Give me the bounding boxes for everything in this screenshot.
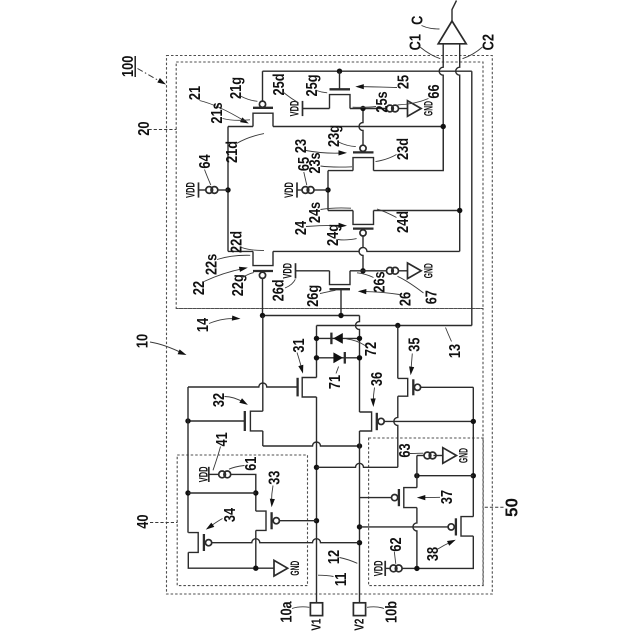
transistor 37 channel plate and arms <box>404 488 417 508</box>
transistor 38 channel plate and arms <box>461 517 473 537</box>
transistor 23 channel plate and arms <box>353 158 374 171</box>
wire 35 source down to wire 11 (hops over 36g and wire 12) <box>394 396 398 467</box>
svg-text:14: 14 <box>195 318 213 332</box>
svg-text:34: 34 <box>222 508 240 522</box>
wire 24 source lead <box>328 210 353 212</box>
box 40 dashed outline <box>177 455 307 586</box>
wire rail to 33 drain rung <box>188 492 256 494</box>
transistor 21 gate bar <box>253 107 273 109</box>
wire 25 gate from wire 13 <box>339 71 341 89</box>
svg-text:21: 21 <box>187 86 205 100</box>
wire 37 source down (hop over 38g) <box>413 508 417 569</box>
wire 24 drain lead to C2 bus <box>374 210 460 212</box>
wire 33 source down to GND rail <box>255 530 257 568</box>
node A vertical (wire 13 to diodes and 31 drain) <box>316 326 318 378</box>
junction dot 22g on wire 14 <box>260 313 265 318</box>
wire C1 lead <box>439 44 443 171</box>
transistor 38 gate bubble <box>448 524 454 530</box>
transistor 25 channel plate and arms <box>330 95 351 109</box>
svg-text:36: 36 <box>369 372 387 386</box>
transistor 31 gate bar <box>296 378 298 397</box>
svg-text:67: 67 <box>423 290 441 304</box>
transistor 22 gate bubble <box>259 272 265 278</box>
svg-text:VDD: VDD <box>282 263 295 279</box>
svg-text:32: 32 <box>211 393 229 407</box>
wire 22 source lead <box>228 250 253 252</box>
transistor 33 channel plate and arms <box>256 511 266 530</box>
wire 36 gate to right bus <box>384 420 473 422</box>
wire 35 gate to right bus <box>421 386 474 388</box>
svg-text:24g: 24g <box>325 224 343 246</box>
svg-text:GND: GND <box>289 561 303 576</box>
wire 22 drain lead to C2 node (hop over 24g) <box>273 247 460 251</box>
svg-text:25: 25 <box>395 75 413 89</box>
junction dot 38g on wire 12 <box>357 524 362 529</box>
current source 41/61 symbol <box>219 471 226 478</box>
terminal 10b box V2 <box>353 603 365 616</box>
transistor 37 gate bar <box>398 489 400 506</box>
transistor 24 gate bar <box>353 227 374 229</box>
junction dot current source 65 <box>325 187 330 192</box>
ground symbol 67 <box>408 263 422 279</box>
wire 23 drain lead to C1 bus <box>374 127 444 171</box>
svg-text:25s: 25s <box>374 91 392 112</box>
transistor 38 gate bar <box>455 518 457 535</box>
ground symbol box 40 <box>274 560 288 576</box>
diode 72 (points left) <box>333 333 343 344</box>
wire 14 horizontal (22g to 26g to node B) <box>263 315 360 317</box>
svg-text:21s: 21s <box>209 102 227 123</box>
svg-text:21d: 21d <box>224 141 242 163</box>
svg-text:25d: 25d <box>271 73 289 95</box>
transistor 21 gate wire from wire 13 <box>262 71 264 101</box>
current source 64 symbol <box>198 182 200 197</box>
wire 26 gate down to node 14 <box>340 289 342 315</box>
svg-text:12: 12 <box>326 550 344 564</box>
junction dot 25g on wire 13 <box>337 69 342 74</box>
wire 36 source stub <box>359 431 361 446</box>
wire rail 31g/32g/33d/34d <box>187 387 189 533</box>
svg-text:31: 31 <box>291 338 309 352</box>
wire 12 from V2 up to 32s/36s junction <box>359 446 361 603</box>
svg-text:41: 41 <box>214 432 232 446</box>
svg-text:C2: C2 <box>480 34 498 50</box>
svg-text:61: 61 <box>243 457 261 471</box>
svg-text:35: 35 <box>406 337 424 351</box>
svg-text:40: 40 <box>135 514 153 528</box>
transistor 22 gate bar <box>253 270 273 272</box>
transistor 33 gate bubble <box>273 518 279 524</box>
wire diode top rung <box>317 337 360 339</box>
svg-text:10a: 10a <box>278 600 296 622</box>
box 50 dashed outline <box>369 438 484 586</box>
wire 63 down to 37 drain <box>416 456 418 488</box>
wire 23 source lead <box>328 170 353 172</box>
svg-text:22g: 22g <box>230 274 248 296</box>
svg-text:63: 63 <box>397 443 415 457</box>
transistor 32 channel plate and arms <box>250 411 262 431</box>
junction dot 26g on wire 14 <box>338 313 343 318</box>
transistor 34 channel plate and arms <box>188 533 198 553</box>
svg-text:24s: 24s <box>307 202 325 223</box>
transistor 23 gate bar <box>353 151 374 153</box>
VDD symbol at 26 drain <box>295 263 297 278</box>
wire 22 gate down to node 14 <box>262 278 264 315</box>
wire middle rail 23s/24s <box>327 171 329 211</box>
svg-text:37: 37 <box>439 490 457 504</box>
svg-text:C: C <box>409 15 427 25</box>
junction dot 25s node <box>360 106 365 111</box>
diode 71 (points right) <box>333 352 343 363</box>
transistor 35 gate bubble <box>414 384 420 390</box>
crystal apex lead <box>452 1 457 22</box>
ground symbol 66 <box>408 101 422 117</box>
wire 24 gate down to 26s node (hop over 22d) <box>359 236 363 271</box>
box 20 (oscillation circuit) dashed outline <box>176 62 483 309</box>
wire 33 gate to wire 11 <box>279 520 316 522</box>
terminal 10a box V1 <box>310 603 322 616</box>
junction dot 33 drain node <box>253 490 258 495</box>
box 10 (IC) dashed outline: top/right/bottom <box>176 309 483 586</box>
svg-text:65: 65 <box>296 157 314 171</box>
wire rung 63/37d to right bus <box>417 475 473 477</box>
svg-text:23g: 23g <box>326 125 344 147</box>
wire 21 source lead <box>228 126 253 128</box>
transistor 23 gate bubble <box>360 145 366 151</box>
junction dot 35s on wire 11 <box>314 465 319 470</box>
transistor 22 channel plate and arms <box>253 251 273 265</box>
wire 13 right bus segment <box>471 71 473 325</box>
wire 38 gate from wire 12 <box>360 526 449 528</box>
transistor 34 gate bar <box>203 534 205 551</box>
svg-text:72: 72 <box>363 342 381 356</box>
wire 35 drain up to wire 13 <box>397 326 399 379</box>
junction dot 32s/36s on wire 12 <box>357 443 362 448</box>
svg-text:13: 13 <box>447 344 465 358</box>
wire diode bottom rung <box>317 357 360 359</box>
transistor 33 gate bar <box>270 512 272 529</box>
VDD symbol 62 <box>384 561 386 576</box>
wire 11 from V1 up to 31 source <box>316 397 318 603</box>
svg-text:50: 50 <box>501 498 522 517</box>
svg-text:10: 10 <box>134 334 152 348</box>
junction dot rail at 493 <box>185 490 190 495</box>
transistor 36 gate bubble <box>378 418 384 424</box>
svg-text:22s: 22s <box>203 254 221 275</box>
wire 34 gate to wire 12 (hops over 33s and wire 11) <box>212 539 360 543</box>
junction dot 63/37d <box>414 473 419 478</box>
transistor 21 channel plate and arms <box>253 113 273 126</box>
node B vertical (wire 14 to diodes and 36 drain, hop over wire 13) <box>356 316 360 413</box>
wire 34 source to GND rail <box>188 552 274 568</box>
transistor 35 channel plate and arms <box>398 378 408 396</box>
svg-text:21g: 21g <box>228 77 246 99</box>
svg-text:62: 62 <box>388 537 406 551</box>
junction dot C1 node with 21 drain <box>441 124 446 129</box>
transistor 34 gate bubble <box>206 540 212 546</box>
wire 25s to 23 gate (hop over 21d) <box>359 109 363 146</box>
wire 13 bottom segment <box>317 325 472 327</box>
wire 32 source to wire 12 (hop over wire 11) <box>262 431 264 446</box>
svg-text:VDD: VDD <box>373 561 386 577</box>
svg-text:VDD: VDD <box>289 101 302 117</box>
junction dot 34g on wire 12 <box>357 540 362 545</box>
svg-text:26s: 26s <box>371 271 389 292</box>
transistor 26 channel plate and arms <box>330 271 351 285</box>
svg-text:24d: 24d <box>395 211 413 233</box>
wire 37 gate from wire 12 <box>360 497 392 499</box>
svg-text:C1: C1 <box>407 34 425 50</box>
svg-text:GND: GND <box>422 263 436 278</box>
svg-text:26d: 26d <box>270 279 288 301</box>
wire 13 top segment (21g/25g to right bus) <box>263 70 472 72</box>
wire C2 lead <box>456 44 460 252</box>
wire 31 gate from rail (hop over 22g/32 column) <box>188 383 298 387</box>
junction dot 37s/62 <box>414 566 419 571</box>
svg-text:V1: V1 <box>311 619 324 631</box>
junction dot 33g on wire 11 <box>314 518 319 523</box>
transistor 36 channel plate and arms <box>360 412 372 431</box>
svg-text:V2: V2 <box>354 619 367 631</box>
ground symbol 63 <box>443 448 457 464</box>
wire left rail 21s/22s with current source 64 tap <box>227 127 229 252</box>
junction dot 32g on rail <box>185 418 190 423</box>
VDD symbol 41 <box>208 467 210 482</box>
junction dot C2 node with 24 drain <box>457 208 462 213</box>
wire 22g/14 column down to 32 drain (hop over 31g) <box>262 316 264 412</box>
svg-text:VDD: VDD <box>185 182 198 198</box>
svg-text:10b: 10b <box>383 601 401 623</box>
current source 67 symbol <box>387 267 394 274</box>
wire 26 drain lead <box>296 270 330 272</box>
svg-text:22: 22 <box>191 281 209 295</box>
transistor 24 channel plate and arms <box>353 211 374 225</box>
current source 62 symbol <box>390 565 397 572</box>
svg-text:38: 38 <box>425 547 443 561</box>
box 100 (oscillator) dashed outline <box>167 56 493 595</box>
transistor 32 gate bar <box>244 411 246 431</box>
transistor 35 gate bar <box>412 379 414 395</box>
VDD symbol at 25 drain <box>302 101 304 116</box>
svg-text:22d: 22d <box>228 231 246 253</box>
crystal C triangle symbol <box>438 21 466 44</box>
svg-text:20: 20 <box>136 121 154 135</box>
junction dot 36g on right bus <box>471 419 476 424</box>
transistor 37 gate bubble <box>392 495 398 501</box>
svg-text:71: 71 <box>327 375 345 389</box>
transistor 36 gate bar <box>376 413 378 430</box>
svg-text:GND: GND <box>458 448 472 463</box>
svg-text:VDD: VDD <box>283 182 296 198</box>
svg-text:11: 11 <box>333 573 351 587</box>
wire 32 gate from rail <box>188 420 245 422</box>
wire 21 drain lead to C1 node <box>273 126 443 128</box>
svg-text:26g: 26g <box>305 285 323 307</box>
svg-text:23d: 23d <box>395 138 413 160</box>
junction dots diode rungs <box>314 336 319 341</box>
svg-text:66: 66 <box>426 84 444 98</box>
svg-text:33: 33 <box>266 471 284 485</box>
junction dot 24g-26s <box>360 268 365 273</box>
transistor 25 gate bar <box>330 88 351 90</box>
junction dot GND rail 40 <box>253 566 258 571</box>
current source 65 symbol <box>296 182 298 197</box>
svg-text:25g: 25g <box>304 74 322 96</box>
wire 38 source down to 62 rail <box>417 536 473 568</box>
wire 25 source lead <box>350 108 387 110</box>
junction dot current source 64 <box>225 187 230 192</box>
wire right bus in box 50 <box>472 387 474 516</box>
svg-text:64: 64 <box>197 154 215 168</box>
transistor 21 gate bubble <box>259 101 265 107</box>
svg-text:GND: GND <box>422 101 436 116</box>
junction dot 35 drain on wire 13 <box>395 323 400 328</box>
current source 63 symbol <box>424 452 431 459</box>
current source 66 symbol <box>387 105 394 112</box>
junction dot 475 rung on right bus <box>471 473 476 478</box>
transistor 26 gate bar <box>330 288 351 290</box>
wire 26 source lead <box>350 270 387 272</box>
svg-text:26: 26 <box>397 292 415 306</box>
transistor 31 channel plate and arms <box>302 378 316 398</box>
wire 25 drain lead <box>303 108 330 110</box>
transistor 24 gate bubble <box>360 230 366 236</box>
